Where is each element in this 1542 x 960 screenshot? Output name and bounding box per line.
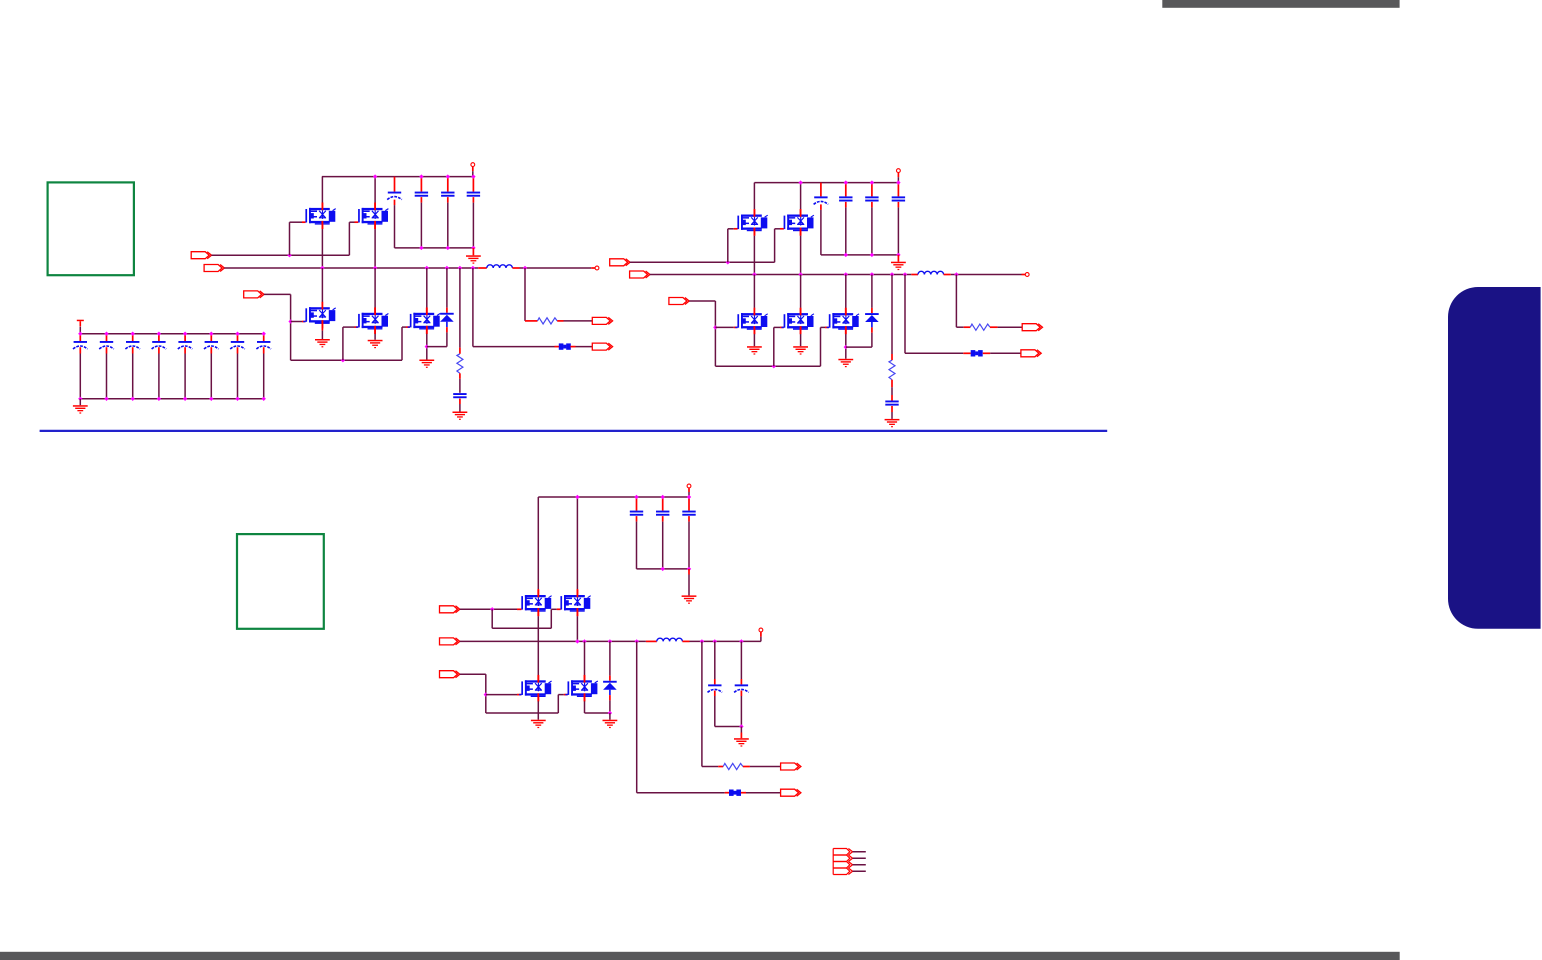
capacitor C5 (bulk input) [178, 332, 193, 402]
connector VSENSE1 output [592, 317, 612, 324]
connector SW3 input [440, 638, 460, 645]
connector OUT3 output [781, 789, 801, 796]
connector HDRV3 input [440, 606, 460, 613]
ground - left snubber [453, 412, 468, 420]
top-right gray header bar [1162, 0, 1399, 8]
wire - left low gate drive [264, 294, 410, 362]
mosfet Q4 (left low-side B) [356, 268, 389, 340]
ground - Q13 source [531, 720, 546, 728]
mosfet Q12 (bottom high-side B) [558, 497, 591, 641]
mosfet Q7 (right high-side B) [781, 183, 814, 275]
wire - bottom switch node [460, 639, 646, 643]
blue horizontal divider line [40, 430, 1108, 432]
capacitor C42 (bottom output) [734, 641, 749, 726]
wire - cap bank top rail [80, 333, 263, 335]
ground - right cap return [891, 255, 906, 270]
resistor R-sense1 (left) [525, 268, 592, 324]
power terminal circle (bottom converter) [687, 484, 691, 497]
capacitor C7 (bulk input) [230, 332, 245, 402]
terminal circle - right VOUT [1025, 273, 1029, 277]
wire - right switch node [650, 272, 911, 276]
mosfet Q13 (bottom low-side A) [519, 675, 552, 720]
ground - left cap return [466, 248, 481, 264]
wire - left fuse branch [473, 268, 559, 347]
connector OUT1 output [592, 343, 612, 350]
capacitor C4 (bulk input) [152, 332, 167, 402]
connector SW1 input [204, 265, 224, 272]
wire - bottom fuse to connector [741, 792, 781, 794]
green outline box 1 [48, 182, 134, 275]
mosfet Q11 (bottom high-side A) [519, 497, 552, 680]
inductor L1 (left output) [478, 265, 519, 268]
ground - Q9 source [793, 346, 808, 354]
inductor L3 (bottom output) [646, 638, 690, 641]
wire - bottom low gate drive [460, 674, 568, 713]
terminal circle - bottom VOUT [759, 628, 763, 632]
mosfet Q6 (right high-side A) [735, 183, 768, 275]
terminal circle - left VOUT [595, 266, 599, 270]
connector LDRV2 input [669, 298, 689, 305]
wire - bottom high gate drive [460, 607, 561, 628]
connector LDRV1 input [244, 291, 264, 298]
wire - right high gate drive [630, 229, 784, 265]
capacitor C33 (bottom rail decoupling) [682, 495, 695, 569]
bottom gray footer bar [0, 952, 1400, 960]
capacitor C-snub1 (left snubber) [453, 393, 466, 411]
resistor R-snub1 (left snubber) [457, 268, 463, 393]
resistor R-sense2 (right) [956, 275, 1022, 331]
wire - cap bank bottom rail [80, 398, 263, 400]
wire - left inductor output [520, 266, 596, 270]
mosfet Q10 (right low-side C) [827, 275, 872, 359]
capacitor C1 (bulk input) [73, 332, 88, 402]
capacitor C32 (bottom rail decoupling) [656, 495, 669, 569]
wire - right fuse branch [905, 275, 971, 354]
connector HDRV1 input [191, 252, 211, 259]
wire - bottom VIN rail [538, 496, 689, 498]
wire - right VIN rail [754, 182, 898, 184]
capacitor C11 (left rail decoupling) [387, 177, 402, 248]
wire - left fuse to connector [570, 346, 592, 348]
capacitor C21 (right rail decoupling) [814, 183, 829, 255]
ground - bottom cap return [682, 569, 697, 604]
fuse F1 (left) [559, 343, 571, 349]
ground - cap bank [73, 399, 88, 414]
connector VSENSE2 output [1022, 324, 1042, 331]
green outline box 2 [237, 534, 324, 629]
mosfet Q5 (left low-side C) [408, 268, 447, 360]
diode D1 (left freewheel) [440, 268, 454, 347]
resistor R-sense3 (bottom) [702, 641, 781, 769]
fuse F2 (right) [971, 350, 983, 356]
dot - right rail Q7 [798, 180, 802, 184]
wire - left high gate drive [212, 222, 359, 257]
capacitor C41 (bottom output) [708, 641, 723, 726]
capacitor C-snub2 (right snubber) [885, 401, 898, 419]
ground - Q8 source [747, 346, 762, 354]
mosfet Q9 (right low-side B) [781, 275, 814, 347]
ground - right snubber [885, 419, 900, 427]
resistor R-snub2 (right snubber) [889, 275, 895, 401]
ground - Q5 source [419, 360, 434, 368]
ground - Q10 source [838, 359, 853, 367]
mosfet Q1 (left high-side A) [303, 177, 336, 268]
wire - right low gate drive [689, 301, 829, 368]
fuse F3 (bottom) [729, 790, 741, 796]
wire - left VIN rail [322, 176, 473, 178]
connector OUT2 output [1021, 350, 1041, 357]
wire - bottom cap return rail [637, 567, 692, 571]
navy sidebar tab [1448, 287, 1541, 629]
capacitor C24 (right rail decoupling) [892, 180, 905, 255]
connector J1 (4-pin header) [833, 849, 866, 875]
mosfet Q3 (left low-side A) [303, 268, 336, 339]
capacitor C22 (right rail decoupling) [839, 180, 852, 255]
ground - Q3 source [315, 339, 330, 347]
mosfet Q14 (bottom low-side B) [565, 641, 610, 713]
wire - left cap return rail [395, 246, 476, 250]
wire - bottom fuse branch [637, 641, 729, 792]
ground - bottom output caps [734, 738, 749, 746]
diode D2 (right freewheel) [865, 275, 879, 348]
wire - left switch node [224, 266, 478, 270]
capacitor C6 (bulk input) [204, 332, 219, 402]
wire - right inductor output [951, 272, 1025, 276]
wire - right cap return rail [821, 253, 901, 257]
wire - bottom inductor output [690, 632, 761, 644]
dot - left rail Q2 [373, 174, 377, 178]
connector HDRV2 input [610, 259, 630, 266]
wire - right fuse to connector [983, 352, 1021, 354]
capacitor C14 (left rail decoupling) [467, 174, 480, 248]
capacitor C8 (bulk input) [256, 332, 271, 402]
capacitor C3 (bulk input) [125, 332, 140, 402]
connector VSENSE3 output [781, 763, 801, 770]
power terminal circle (left converter) [471, 163, 475, 177]
inductor L2 (right output) [911, 271, 950, 274]
power terminal T [77, 320, 84, 334]
capacitor C13 (left rail decoupling) [441, 174, 454, 248]
capacitor C2 (bulk input) [99, 332, 114, 402]
mosfet Q8 (right low-side A) [735, 275, 768, 347]
connector LDRV3 input [440, 671, 460, 678]
dot - bottom rail Q12 [575, 495, 579, 499]
capacitor C12 (left rail decoupling) [415, 174, 428, 248]
wire - bottom output cap return [715, 724, 744, 738]
ground - bottom low-side [603, 720, 618, 728]
diode D3 (bottom freewheel) [603, 641, 617, 719]
connector SW2 input [630, 271, 650, 278]
power terminal circle (right converter) [897, 169, 901, 183]
capacitor C31 (bottom rail decoupling) [630, 495, 643, 569]
mosfet Q2 (left high-side B) [356, 177, 389, 268]
ground - Q4 source [368, 340, 383, 348]
capacitor C23 (right rail decoupling) [865, 180, 878, 255]
